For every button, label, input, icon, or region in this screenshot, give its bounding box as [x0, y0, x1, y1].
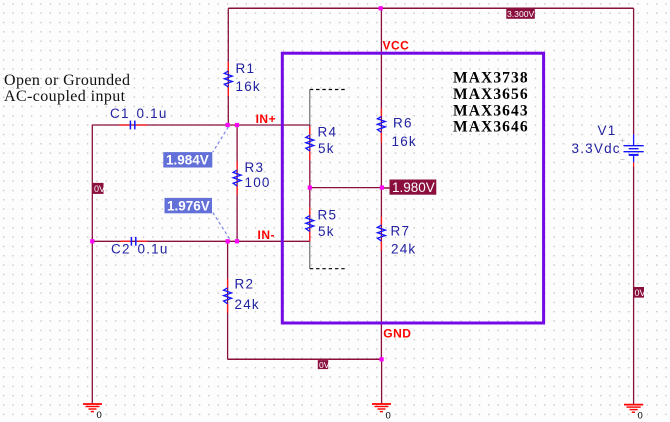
probe callout dashed line to IN+	[213, 127, 229, 152]
bias label 3.300V	[506, 9, 535, 19]
wire right column (top rail to V1 and ground)	[633, 8, 635, 404]
wire GND junction to ground symbol	[381, 359, 383, 403]
resistor R1	[224, 62, 232, 96]
label R3 refdes	[245, 160, 265, 175]
svg-text:0V: 0V	[319, 360, 330, 370]
ground 0 (middle, GND)	[372, 404, 391, 422]
svg-text:R3: R3	[245, 160, 265, 175]
junction dot bottom GND	[380, 357, 384, 361]
probe callout dashed line to IN-	[213, 213, 230, 239]
label R7 value 24k	[391, 242, 416, 257]
svg-text:3.3Vdc: 3.3Vdc	[572, 141, 621, 156]
annotation text Open or Grounded / AC-coupled input	[4, 72, 130, 105]
label R2 refdes	[235, 277, 255, 292]
label R6 refdes	[393, 115, 413, 130]
node IN- label	[258, 228, 276, 242]
node VCC label	[383, 38, 410, 52]
label R1 value 16k	[236, 79, 261, 94]
svg-text:MAX3656: MAX3656	[453, 86, 529, 103]
label R3 value 100	[245, 175, 271, 190]
wire stub to 1.980V bias label	[384, 187, 390, 189]
svg-text:1.980V: 1.980V	[392, 180, 435, 195]
label R5 value 5k	[318, 224, 335, 239]
junction dot IN- / R2	[226, 239, 230, 243]
wire R2 column (IN- down)	[227, 241, 229, 359]
bias label 1.980V	[390, 180, 437, 195]
label R2 value 24k	[235, 297, 260, 312]
node GND label	[383, 327, 411, 341]
IC internal dashed lead top	[310, 90, 346, 126]
svg-text:R7: R7	[391, 223, 411, 238]
svg-text:R6: R6	[393, 115, 413, 130]
IC part list MAX3643	[453, 102, 529, 119]
wire bottom horizontal (R2 to GND junction)	[228, 358, 382, 360]
svg-text:VCC: VCC	[383, 38, 410, 52]
bias label 0V (right column)	[633, 287, 646, 298]
svg-text:5k: 5k	[318, 224, 335, 239]
resistor R6	[377, 108, 385, 143]
junction dot IN+ / R1	[226, 123, 230, 127]
node IN+ label	[256, 112, 277, 126]
svg-text:0V: 0V	[635, 288, 646, 298]
svg-text:100: 100	[245, 175, 271, 190]
label R6 value 16k	[392, 134, 417, 149]
junction dot IN- / left column	[90, 239, 94, 243]
IC part list MAX3656	[453, 86, 529, 103]
svg-text:3.300V: 3.300V	[507, 9, 535, 19]
svg-text:AC-coupled input: AC-coupled input	[4, 88, 126, 105]
label R1 refdes	[236, 61, 256, 76]
svg-text:GND: GND	[383, 327, 411, 341]
IC internal dashed lead bottom	[310, 241, 346, 268]
svg-text:MAX3646: MAX3646	[453, 119, 529, 136]
wire R1 column (top rail to IN+)	[227, 8, 229, 125]
svg-text:24k: 24k	[391, 242, 416, 257]
svg-text:C2: C2	[111, 242, 131, 257]
voltage source V1 battery	[621, 135, 644, 167]
IC U1 box MAX3738 family	[282, 53, 543, 323]
svg-text:IN-: IN-	[258, 228, 276, 242]
IC part list MAX3738	[453, 70, 529, 87]
wire left column (C1/C2 left to ground)	[91, 125, 93, 404]
wire IN- net horizontal	[92, 240, 309, 242]
resistor R3	[233, 161, 241, 195]
label R4 value 5k	[318, 141, 335, 156]
junction dot internal node / R6R7 column	[380, 186, 384, 190]
svg-text:R4: R4	[318, 125, 338, 140]
svg-text:16k: 16k	[236, 79, 261, 94]
wire internal node (R4/R5 mid to R6/R7 mid)	[310, 187, 382, 189]
probe label 1.984V	[163, 152, 212, 168]
svg-text:0: 0	[386, 411, 391, 422]
junction dot top rail / VCC column	[379, 6, 383, 10]
junction dot IN+ / R3	[235, 123, 239, 127]
svg-text:0V: 0V	[94, 184, 105, 194]
svg-text:IN+: IN+	[256, 112, 277, 126]
svg-text:24k: 24k	[235, 297, 260, 312]
label R4 refdes	[318, 125, 338, 140]
svg-text:1.984V: 1.984V	[166, 153, 209, 168]
svg-text:Open or Grounded: Open or Grounded	[4, 72, 130, 89]
svg-text:0.1u: 0.1u	[137, 106, 168, 121]
wire R3 column (IN+ to IN-)	[236, 125, 238, 241]
svg-text:1.976V: 1.976V	[167, 199, 210, 214]
junction dot IN- / R3	[235, 239, 239, 243]
svg-text:R5: R5	[318, 208, 338, 223]
label R5 refdes	[318, 208, 338, 223]
label V1 value 3.3Vdc	[572, 141, 621, 156]
wire R4/R5 column (IN+ to IN- inside IC)	[309, 125, 311, 241]
svg-text:0: 0	[97, 410, 102, 421]
svg-text:R1: R1	[236, 61, 256, 76]
svg-text:0.1u: 0.1u	[138, 242, 169, 257]
svg-text:R2: R2	[235, 277, 255, 292]
svg-text:16k: 16k	[392, 134, 417, 149]
label R7 refdes	[391, 223, 411, 238]
label C2 refdes and value 0.1u	[111, 242, 169, 257]
IC part list MAX3646	[453, 119, 529, 136]
svg-text:V1: V1	[598, 123, 617, 138]
capacitor C2	[120, 237, 147, 246]
label V1 refdes	[598, 123, 617, 138]
junction dot internal node / R4R5 column	[308, 186, 312, 190]
svg-text:MAX3643: MAX3643	[453, 102, 529, 119]
svg-text:C1: C1	[110, 106, 130, 121]
svg-text:5k: 5k	[318, 141, 335, 156]
resistor R2	[224, 279, 232, 313]
wire IN+ net horizontal	[92, 124, 309, 126]
wire top rail VCC net	[228, 7, 633, 9]
label C1 refdes and value 0.1u	[110, 106, 168, 121]
ground 0 (right, V1)	[624, 405, 643, 422]
capacitor C1	[119, 121, 147, 130]
probe label 1.976V	[165, 198, 213, 214]
resistor R4	[306, 127, 314, 161]
wire VCC column (top rail to GND junction)	[380, 8, 382, 359]
svg-text:MAX3738: MAX3738	[453, 70, 529, 87]
bias label 0V (left column)	[93, 183, 106, 194]
ground 0 (left)	[83, 404, 102, 421]
resistor R7	[377, 217, 385, 251]
svg-text:0: 0	[638, 411, 643, 422]
resistor R5	[306, 208, 314, 242]
bias label 0V (bottom wire)	[318, 360, 330, 370]
